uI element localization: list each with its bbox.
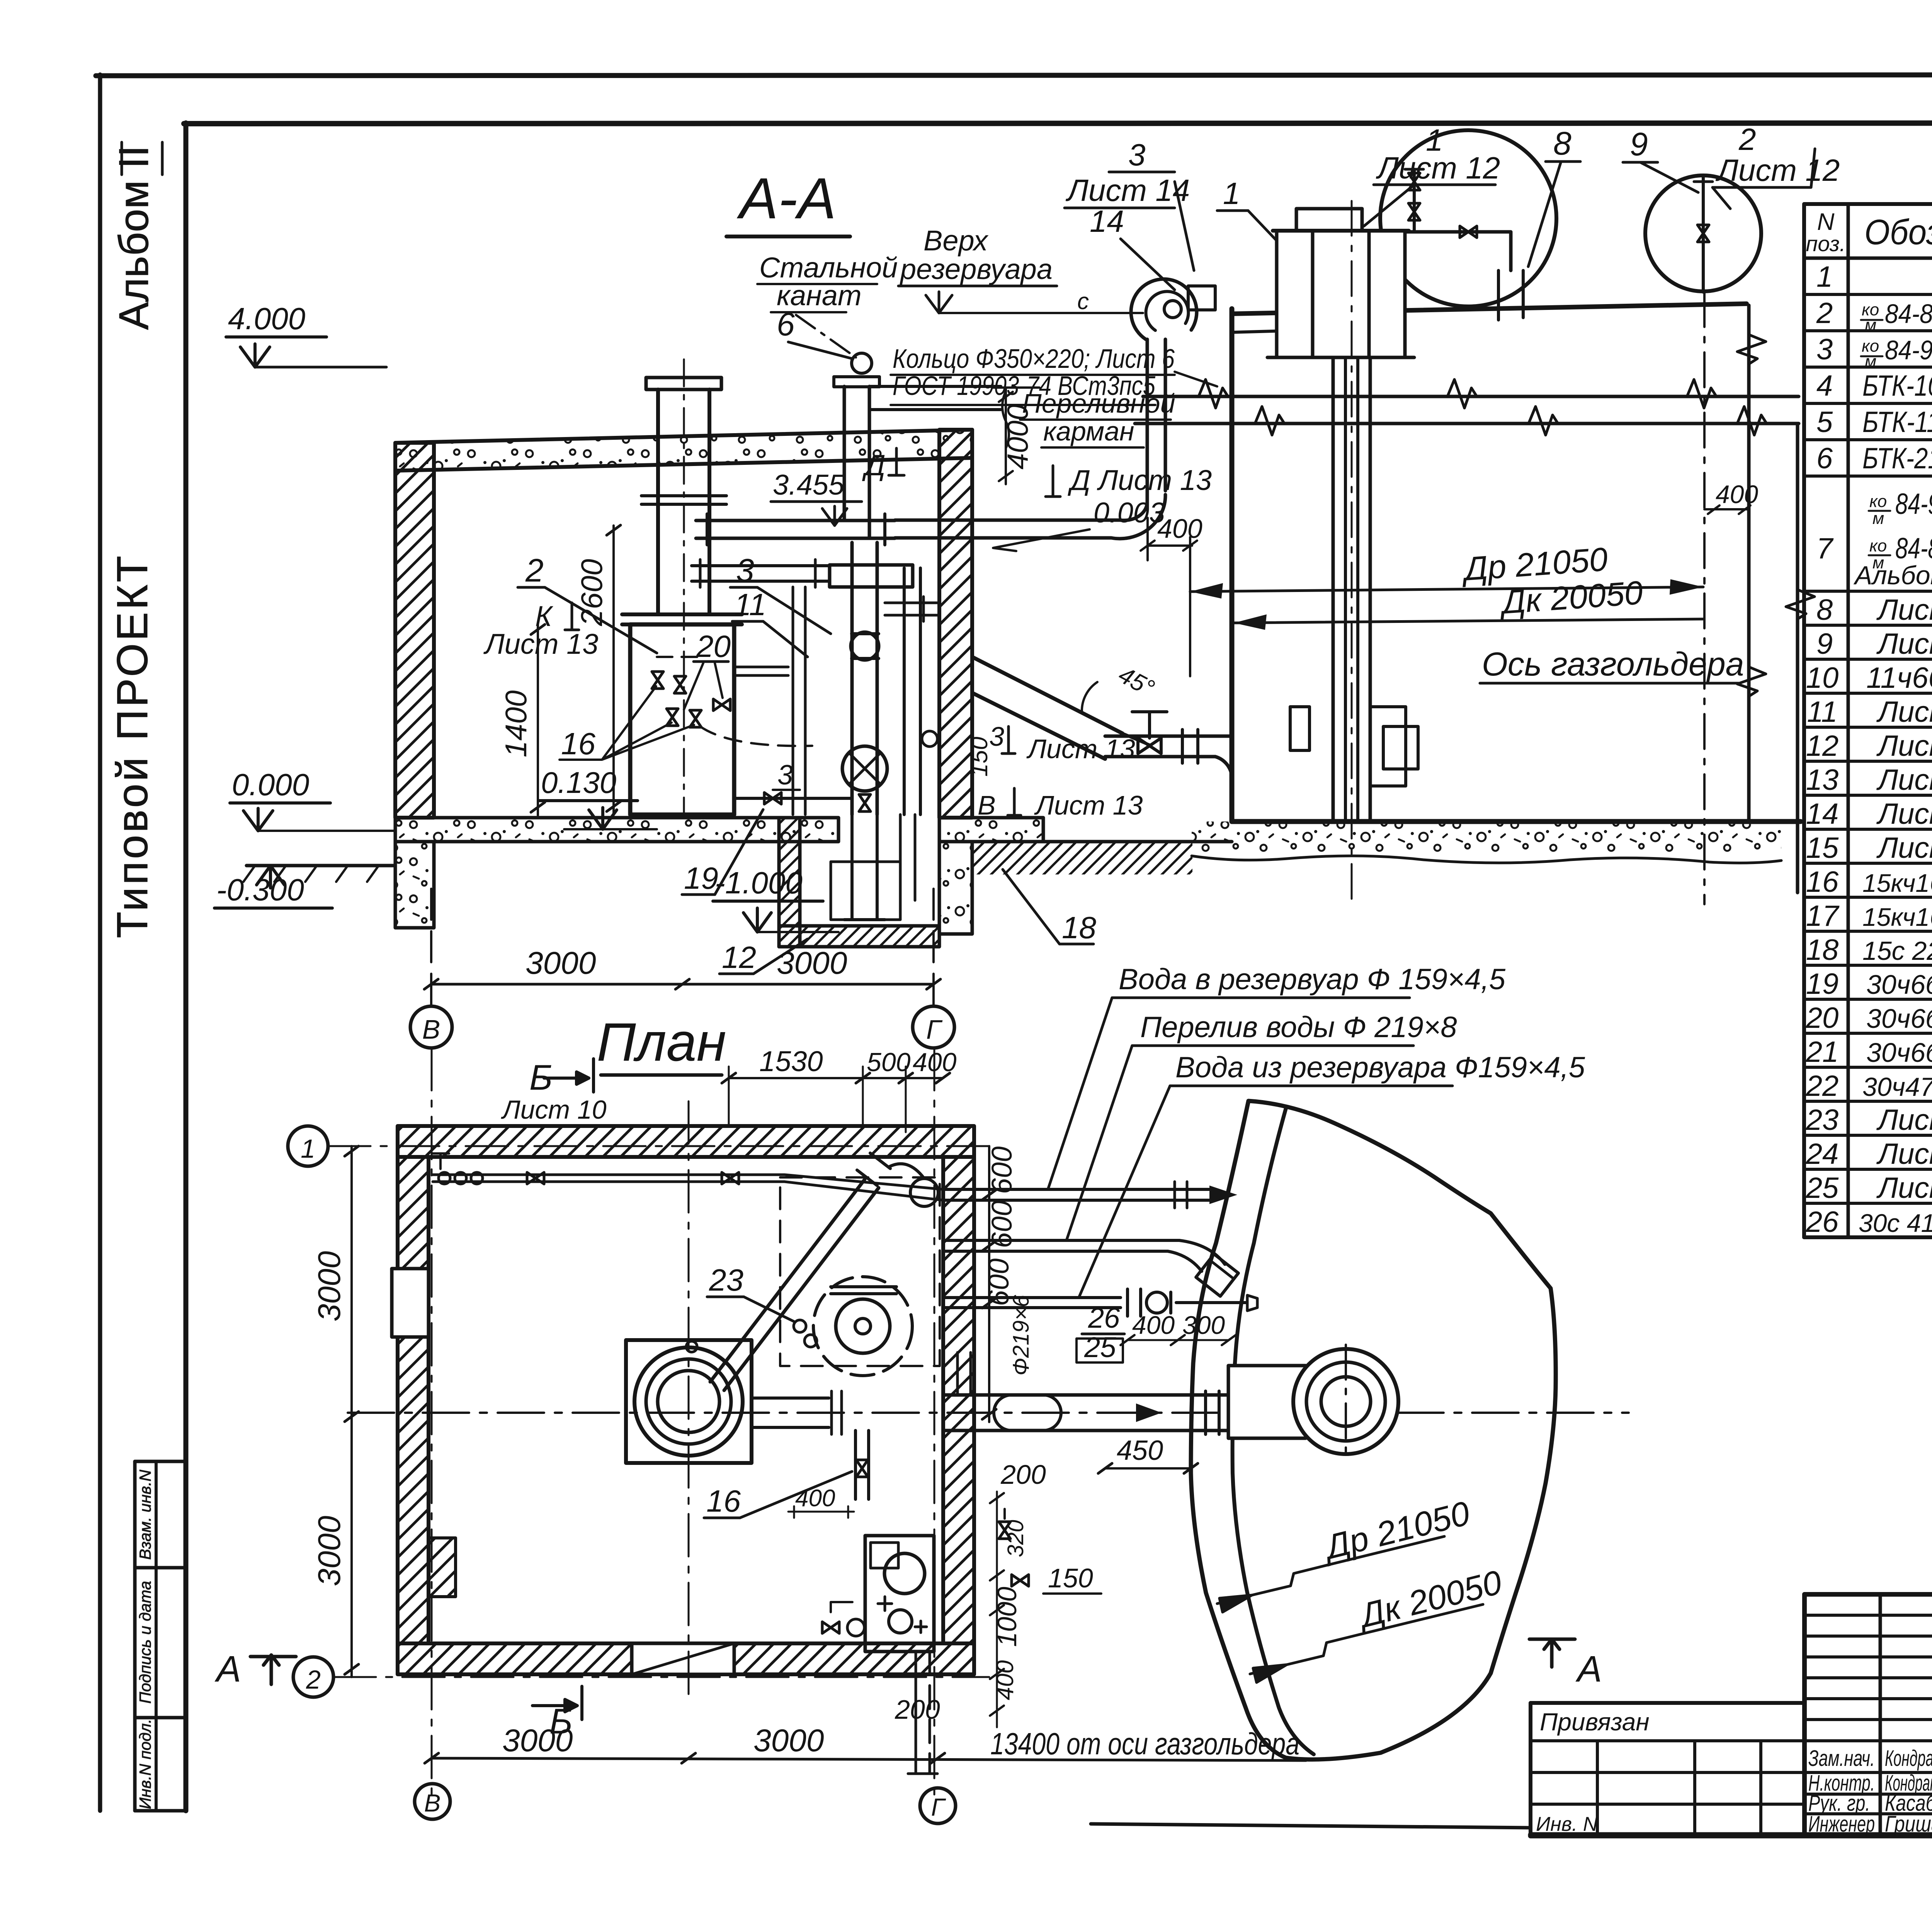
PARTS-TABLE <box>1804 204 1932 1238</box>
svg-text:11: 11 <box>734 587 766 622</box>
callout 18 <box>1062 910 1096 945</box>
svg-text:Ф219×6: Ф219×6 <box>1009 1294 1034 1376</box>
perelivnoy karman label <box>1022 388 1175 446</box>
svg-text:2: 2 <box>1816 297 1833 330</box>
elevator body <box>850 543 854 815</box>
callout 23 <box>709 1263 743 1297</box>
callout 20 <box>696 629 731 663</box>
Dk 20050 label in blob <box>1353 1563 1505 1635</box>
svg-text:16: 16 <box>706 1484 741 1518</box>
svg-text:Лист 10: Лист 10 <box>1876 832 1932 864</box>
chamber walls plan <box>398 1126 974 1157</box>
svg-text:3: 3 <box>1816 333 1833 366</box>
svg-text:Лист 14: Лист 14 <box>1876 1172 1932 1204</box>
svg-text:4: 4 <box>1816 369 1833 402</box>
svg-text:4.000: 4.000 <box>228 301 305 336</box>
svg-text:150: 150 <box>966 737 993 777</box>
inner frame bottom right portion <box>1531 1832 1932 1837</box>
svg-text:20: 20 <box>1806 1002 1839 1034</box>
svg-text:Кондратьев: Кондратьев <box>1885 1746 1932 1771</box>
svg-text:6: 6 <box>1816 442 1833 475</box>
top interior pipe with taps <box>433 1174 784 1176</box>
svg-text:Лист 13: Лист 13 <box>483 628 598 660</box>
verh rezervuara level label <box>900 225 1053 285</box>
svg-text:20: 20 <box>696 629 731 663</box>
svg-text:резервуара: резервуара <box>900 253 1053 285</box>
ground between chamber and gasholder <box>972 840 1232 844</box>
privyazan block <box>1531 1701 1804 1705</box>
svg-text:ко: ко <box>1869 536 1887 555</box>
svg-text:84-92.00.000.СБ: 84-92.00.000.СБ <box>1895 488 1932 520</box>
svg-text:Лист 13: Лист 13 <box>1034 790 1143 820</box>
foundation under left wall <box>395 842 434 928</box>
elevation mark -1.000 <box>715 866 803 900</box>
svg-text:БТК-21.00.000.СБ: БТК-21.00.000.СБ <box>1862 442 1932 475</box>
svg-text:2: 2 <box>306 1665 321 1694</box>
flag B list 13 <box>978 790 1143 820</box>
labels 26/25 boxed <box>1084 1302 1120 1363</box>
dim 400 300 <box>1132 1311 1225 1339</box>
svg-text:3000: 3000 <box>753 1723 824 1758</box>
svg-text:Лист 14: Лист 14 <box>1876 798 1932 830</box>
svg-text:0.130: 0.130 <box>541 765 616 799</box>
callout 3 <box>736 552 754 589</box>
svg-text:Лист 12: Лист 12 <box>1876 730 1932 762</box>
bottom border segment left of title block <box>1091 1824 1531 1828</box>
vertical branch pipe with valve pos16 <box>854 1431 857 1499</box>
svg-text:Переливной: Переливной <box>1022 388 1175 418</box>
main outline <box>1804 1592 1932 1597</box>
svg-text:3: 3 <box>777 760 793 791</box>
chamber floor slab <box>395 818 838 842</box>
svg-text:10: 10 <box>1806 662 1839 694</box>
svg-text:Лист 14: Лист 14 <box>1876 764 1932 796</box>
detail circle 2 <box>1645 175 1761 291</box>
svg-text:11: 11 <box>1807 696 1838 728</box>
elevation mark 4.000 <box>228 301 305 336</box>
svg-text:18: 18 <box>1806 934 1839 966</box>
long overflow pipe to gasholder (upper) <box>1143 395 1799 398</box>
pipe 3 (water from reservoir) <box>943 1296 1121 1299</box>
svg-text:Лист 14: Лист 14 <box>1876 1138 1932 1170</box>
top callout 8 <box>1553 125 1571 162</box>
svg-text:3000: 3000 <box>312 1516 347 1586</box>
svg-text:84-93.00.000.СБ: 84-93.00.000.СБ <box>1885 335 1932 365</box>
svg-text:В: В <box>424 1789 441 1817</box>
svg-text:13: 13 <box>1806 764 1839 796</box>
elevation mark 0.000 <box>232 767 309 802</box>
scrubber circles <box>813 1277 912 1376</box>
svg-text:400: 400 <box>913 1048 957 1077</box>
svg-text:Гришаев: Гришаев <box>1885 1812 1932 1837</box>
right side dims 600x3 <box>988 1146 990 1422</box>
svg-text:А-А: А-А <box>736 166 836 231</box>
dim Dr 21050 <box>1460 541 1609 588</box>
roof crossing pipe going right <box>869 385 1001 388</box>
TITLE-BLOCK <box>1531 1237 1932 1837</box>
top callout 3 list 14 <box>1065 138 1190 238</box>
svg-text:Кольцо Ф350×220; Лист 6: Кольцо Ф350×220; Лист 6 <box>893 344 1175 374</box>
SECTION-VIEW A-A <box>214 122 1840 1048</box>
svg-text:23: 23 <box>1806 1104 1839 1136</box>
svg-text:Д Лист 13: Д Лист 13 <box>1068 464 1212 496</box>
svg-text:Лист 12: Лист 12 <box>1876 628 1932 660</box>
chamber roof slab <box>395 430 972 471</box>
svg-text:15кч16нж: 15кч16нж <box>1862 903 1932 931</box>
blob inner wall line <box>1233 1108 1314 1754</box>
svg-text:4000: 4000 <box>1002 404 1034 469</box>
cap structure over central pipe <box>1277 231 1405 357</box>
svg-text:13400 от оси газгольдера: 13400 от оси газгольдера <box>990 1726 1299 1761</box>
svg-text:30с 41нж1: 30с 41нж1 <box>1859 1209 1932 1237</box>
svg-text:150: 150 <box>1048 1563 1093 1593</box>
bottom grid bubbles <box>430 889 432 1005</box>
main axis pipe <box>943 1393 1230 1397</box>
svg-text:9: 9 <box>1630 126 1648 162</box>
extra chamber pipes <box>792 587 794 815</box>
svg-text:Ось газгольдера: Ось газгольдера <box>1482 646 1744 683</box>
K list 13 flag <box>483 600 598 660</box>
svg-text:Альбом IV: Альбом IV <box>1853 561 1932 590</box>
svg-text:Верх: Верх <box>923 225 989 257</box>
top callout 2 list 12 <box>1715 122 1840 187</box>
svg-text:200: 200 <box>895 1694 940 1725</box>
diagonal pipe <box>710 1179 865 1382</box>
svg-text:3: 3 <box>736 552 754 589</box>
drain tank (pos.2) <box>630 624 734 815</box>
svg-text:2: 2 <box>525 552 544 589</box>
svg-text:Лист 13: Лист 13 <box>1026 734 1135 764</box>
dim 2600 <box>612 526 615 815</box>
svg-text:Г: Г <box>931 1793 946 1821</box>
signature rows text <box>1808 1746 1932 1837</box>
outer border left <box>98 75 102 1811</box>
svg-text:5: 5 <box>1816 406 1833 439</box>
svg-text:11ч6бк: 11ч6бк <box>1866 662 1932 694</box>
svg-text:В: В <box>422 1014 440 1044</box>
svg-text:400: 400 <box>1132 1311 1175 1339</box>
tank riser pipe <box>656 390 660 614</box>
svg-text:БТК-11.00.000.СБ: БТК-11.00.000.СБ <box>1862 406 1932 439</box>
svg-text:16: 16 <box>1806 866 1839 898</box>
svg-text:Обозначение: Обозначение <box>1864 213 1932 252</box>
elevation mark 3.455 <box>773 469 845 501</box>
dashed equipment box <box>780 1177 940 1366</box>
A section marks <box>214 1648 241 1690</box>
gasholder tank outline <box>1230 309 1235 822</box>
axis label <box>1482 646 1744 683</box>
svg-text:22: 22 <box>1806 1070 1839 1102</box>
svg-text:Г: Г <box>926 1014 943 1044</box>
B section marks <box>529 1058 553 1097</box>
svg-text:26: 26 <box>1088 1302 1120 1334</box>
svg-text:600: 600 <box>986 1146 1018 1194</box>
bottom stamp boxes <box>133 1461 137 1811</box>
svg-text:Вода в резервуар Ф 159×4,5: Вода в резервуар Ф 159×4,5 <box>1119 963 1506 996</box>
svg-text:26: 26 <box>1806 1206 1839 1238</box>
svg-text:3: 3 <box>1128 138 1146 172</box>
lower small pump <box>889 1610 912 1633</box>
svg-text:30ч47бк4: 30ч47бк4 <box>1862 1072 1932 1102</box>
table grid verticals <box>1802 204 1806 1237</box>
pit pipes <box>850 815 854 920</box>
svg-text:320: 320 <box>1003 1520 1028 1557</box>
gasholder blob outline <box>1191 1101 1556 1759</box>
svg-text:300: 300 <box>1182 1311 1225 1339</box>
svg-text:25: 25 <box>1084 1331 1116 1363</box>
vertical pipe to roof crossing <box>843 386 846 520</box>
detail circle 1 <box>1380 130 1556 306</box>
bottom dim 3000/3000 <box>432 1758 1306 1761</box>
blob flange box and circles <box>1228 1366 1306 1438</box>
svg-text:9: 9 <box>1816 628 1833 660</box>
svg-text:Д: Д <box>862 449 886 482</box>
dim texts lower right <box>895 1459 1093 1725</box>
svg-text:23: 23 <box>709 1263 743 1297</box>
svg-text:Лист 14: Лист 14 <box>1876 1104 1932 1136</box>
svg-text:Инв. N: Инв. N <box>1536 1813 1598 1835</box>
svg-text:Лист 10: Лист 10 <box>1876 696 1932 728</box>
svg-text:Лист 12: Лист 12 <box>1876 594 1932 626</box>
svg-text:Зам.нач.: Зам.нач. <box>1808 1746 1875 1771</box>
svg-text:В: В <box>978 790 996 820</box>
svg-text:21: 21 <box>1806 1036 1839 1068</box>
svg-text:поз.: поз. <box>1806 231 1846 256</box>
svg-text:12: 12 <box>722 940 756 975</box>
svg-text:Альбом II: Альбом II <box>110 145 157 330</box>
svg-text:Привязан: Привязан <box>1540 1708 1650 1736</box>
svg-text:2: 2 <box>1738 122 1756 156</box>
inner frame top <box>184 123 1932 124</box>
gate valve 18 <box>1138 738 1161 754</box>
svg-text:3000: 3000 <box>526 946 596 981</box>
inclined duct 45deg <box>972 657 1122 733</box>
kol'tso label <box>893 344 1175 401</box>
svg-text:Лист 10: Лист 10 <box>501 1095 607 1124</box>
ko/m stacked prefixes rows 2,3,7 <box>1862 300 1887 572</box>
svg-text:25: 25 <box>1806 1172 1839 1204</box>
bottom-right equipment box <box>865 1536 934 1652</box>
dim Dk 20050 <box>1498 574 1644 621</box>
svg-text:24: 24 <box>1806 1138 1839 1170</box>
dim 4000 vertical <box>993 388 1039 484</box>
svg-text:Взам. инв.N: Взам. инв.N <box>136 1470 154 1560</box>
svg-text:БТК-10.00.000.СБ: БТК-10.00.000.СБ <box>1862 369 1932 402</box>
svg-text:Инв.N подл.: Инв.N подл. <box>136 1719 154 1809</box>
pipe 2 (overflow) with funnel <box>943 1239 1179 1242</box>
svg-text:К: К <box>535 600 554 632</box>
svg-text:3.455: 3.455 <box>773 469 845 501</box>
table header text <box>1806 209 1932 256</box>
Dr 21050 label in blob <box>1318 1493 1474 1567</box>
svg-text:200: 200 <box>1000 1459 1046 1490</box>
svg-text:15кч16нж: 15кч16нж <box>1862 869 1932 897</box>
svg-text:Вода из резервуара Ф159×4,5: Вода из резервуара Ф159×4,5 <box>1175 1051 1585 1084</box>
svg-text:15: 15 <box>1806 832 1839 864</box>
svg-text:400: 400 <box>992 1660 1019 1700</box>
svg-text:А: А <box>214 1648 241 1690</box>
axes dash-dot <box>431 1048 433 1799</box>
svg-text:3000: 3000 <box>777 946 847 981</box>
ring (polz.6) and cable <box>852 353 872 373</box>
dim 400 near valve16 <box>795 1485 835 1512</box>
LEFT-MARGIN <box>108 142 186 1811</box>
pipe labels above <box>1119 963 1506 996</box>
dim 400 near axis <box>1716 480 1758 509</box>
callout 11 <box>734 587 766 622</box>
pipes down from box <box>915 1652 917 1774</box>
svg-text:с: с <box>1077 288 1089 314</box>
dim 400 under overflow pipe <box>1157 514 1202 544</box>
chamber left wall <box>395 443 434 818</box>
top callout 9 <box>1630 126 1648 162</box>
svg-text:30ч6бр: 30ч6бр <box>1866 1004 1932 1034</box>
svg-text:30ч6бк: 30ч6бк <box>1866 970 1932 1000</box>
dim 450 <box>1117 1435 1163 1466</box>
callout 19 <box>684 861 718 895</box>
svg-text:84-88.00.000.СБ: 84-88.00.000.СБ <box>1895 532 1932 565</box>
ground line left of chamber <box>247 864 395 867</box>
left grid bubbles <box>288 1126 328 1166</box>
gravel bed under tank <box>1192 822 1781 856</box>
table body text <box>1806 260 1932 1238</box>
svg-text:15с 22нж: 15с 22нж <box>1862 936 1932 966</box>
svg-text:8: 8 <box>1553 125 1571 162</box>
bottom grid bubbles <box>415 1784 450 1819</box>
svg-text:12: 12 <box>1806 730 1839 762</box>
central pipe <box>1332 357 1335 822</box>
svg-text:Подпись и дата: Подпись и дата <box>136 1581 154 1704</box>
horizontal pipe from duct to tank <box>1105 735 1232 738</box>
svg-text:ко: ко <box>1869 492 1887 511</box>
PLAN-VIEW <box>214 963 1629 1823</box>
svg-text:1530: 1530 <box>759 1045 823 1077</box>
D list 13 label right <box>1068 464 1212 529</box>
valve cluster pos16/20 <box>652 672 663 689</box>
svg-text:3000: 3000 <box>312 1251 347 1322</box>
left dim 3000/3000 <box>350 1146 353 1677</box>
svg-text:400: 400 <box>795 1485 835 1512</box>
svg-text:450: 450 <box>1117 1435 1163 1466</box>
svg-text:План: План <box>597 1012 726 1072</box>
inner frame left <box>184 123 189 1811</box>
svg-text:Стальной: Стальной <box>759 252 898 284</box>
svg-text:Инженер: Инженер <box>1808 1812 1875 1837</box>
svg-text:19: 19 <box>1806 968 1839 1000</box>
table grid horizontals <box>1804 202 1932 206</box>
outer border top <box>96 75 1932 76</box>
right lower valve and dims <box>999 1522 1010 1539</box>
dim 1400 <box>537 624 539 815</box>
svg-text:500: 500 <box>867 1048 911 1077</box>
svg-text:17: 17 <box>1806 900 1840 932</box>
svg-text:м: м <box>1865 352 1876 371</box>
callout 16 <box>561 726 595 761</box>
svg-text:Перелив воды Ф 219×8: Перелив воды Ф 219×8 <box>1140 1011 1457 1044</box>
overflow drop pipe assembly <box>1131 279 1197 339</box>
top dims 1530/500/400 <box>729 1077 943 1079</box>
chamber right wall <box>939 430 972 818</box>
callout 12 <box>722 940 756 975</box>
elevation mark -0.300 <box>216 873 304 907</box>
central flange assembly <box>626 1340 752 1463</box>
svg-text:1: 1 <box>1223 176 1240 211</box>
svg-text:400: 400 <box>1157 514 1202 544</box>
svg-text:1400: 1400 <box>499 690 533 757</box>
svg-text:400: 400 <box>1716 480 1758 509</box>
svg-text:7: 7 <box>1816 532 1834 565</box>
svg-text:м: м <box>1865 316 1876 335</box>
steel cable label <box>759 252 898 311</box>
svg-text:1: 1 <box>1816 260 1833 293</box>
pipe 1 (water to reservoir) <box>943 1188 1209 1191</box>
svg-text:Типовой ПРОЕКТ: Типовой ПРОЕКТ <box>108 553 156 938</box>
svg-text:84-81.00.000.СБ: 84-81.00.000.СБ <box>1885 299 1932 329</box>
D flag (list 13) <box>862 449 886 482</box>
svg-text:19: 19 <box>684 861 718 895</box>
svg-text:8: 8 <box>1816 594 1833 626</box>
svg-text:14: 14 <box>1806 798 1839 830</box>
top callout 1 list 12 <box>1376 123 1500 185</box>
callout 2 <box>525 552 544 589</box>
svg-text:Лист 14: Лист 14 <box>1065 173 1190 208</box>
svg-text:1: 1 <box>301 1134 315 1163</box>
elevator pipes: horizontal pipe <box>696 519 895 522</box>
elevation mark 0.130 <box>541 765 616 799</box>
pit below floor <box>779 818 800 947</box>
svg-text:30ч6бр: 30ч6бр <box>1866 1038 1932 1068</box>
svg-text:16: 16 <box>561 726 595 761</box>
flag 3 list 13 <box>989 721 1135 764</box>
svg-text:А: А <box>1575 1648 1602 1690</box>
svg-text:0.000: 0.000 <box>232 767 309 802</box>
svg-text:18: 18 <box>1062 910 1096 945</box>
